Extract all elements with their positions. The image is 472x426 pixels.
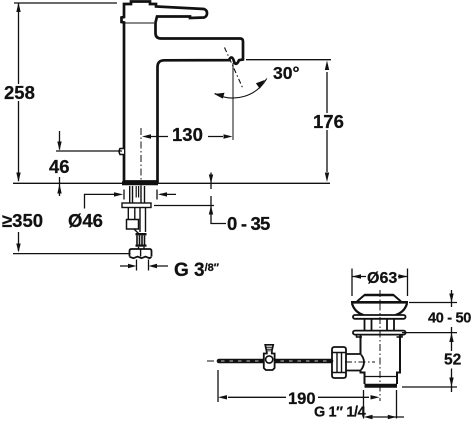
svg-text:40 - 50: 40 - 50 [428,311,471,327]
dim 190 line and arrows [228,396,369,398]
dim 0-35 stubs, arrows, leader [211,173,226,224]
svg-text:176: 176 [313,111,344,132]
handle seam [125,22,154,24]
svg-text:Ø46: Ø46 [68,210,103,231]
rod clamp pivot hole [266,356,273,363]
side clip on body [119,149,124,155]
svg-text:G 3/8″: G 3/8″ [174,260,220,281]
dim >=350 arrow stub [18,232,20,251]
dim Ø46 extension ticks [124,190,157,200]
svg-text:258: 258 [4,82,35,103]
dim 46 extension line at clip [56,150,122,152]
faucet base thick bottom [122,181,158,185]
drain tailpipe bottom [365,384,398,388]
drain funnel sides [352,304,407,316]
svg-text:0 - 35: 0 - 35 [227,213,270,234]
dim 40-50 top arrow stub [451,290,453,307]
flexible hose end [128,208,135,220]
drain ring 1 [353,315,406,319]
drain body top nubs [357,335,403,337]
arc arrowheads [214,80,265,99]
mounting washer [122,203,151,208]
drain centerline horizontal [345,361,375,363]
dim G1 1/4 extension ticks [364,390,397,419]
dim 40-50 extension lines [402,303,457,333]
svg-text:52: 52 [444,352,461,369]
svg-text:G 1″ 1/4: G 1″ 1/4 [314,405,366,421]
svg-text:190: 190 [288,390,316,408]
drain plug cap [357,295,401,302]
drain flange top [351,301,408,304]
counter top line [13,182,330,184]
dim 0-35: counter bottom line [154,205,214,207]
dim Ø63 extension ticks [352,269,408,297]
dim 190 extension tick [217,370,219,402]
dim 52 bottom extension line [402,386,457,388]
drain body [361,335,401,384]
svg-text:46: 46 [49,156,70,177]
dim 258 vertical line [18,3,20,181]
dim 130 line and arrows [151,136,223,138]
dim Ø63 line and arrows [352,276,408,278]
dim 258 top extension line [14,2,117,4]
30 degree arc [215,79,267,98]
svg-text:130: 130 [172,124,203,145]
small ribbed nut on stud [136,233,147,235]
pop-up rod [219,359,331,364]
rod clamp screw [265,345,273,352]
spout outlet vertical reference line [232,63,234,140]
dim 176 extension line from spout outlet [246,59,331,61]
bottom mounting nut [130,249,152,257]
30 degree flow axis dash-dot line [225,48,243,88]
dim 258 arrows [16,3,20,183]
faucet centerline [140,128,142,186]
svg-text:≥350: ≥350 [2,210,43,231]
dim Ø46 leader and arrows [85,194,177,208]
drain ring 2 [353,331,406,335]
supply hoses and stud below base [130,186,145,203]
rod coupling nut [332,347,346,378]
dim 46 stubs and arrows [59,131,61,196]
dim G3/8 ticks [137,260,149,271]
dim 176 line and arrows [326,72,328,172]
svg-text:30°: 30° [273,63,299,83]
drain inlet cylinder [346,354,364,371]
drain threaded barrel [365,319,395,331]
rod clamp body [264,351,275,370]
clearance line below faucet [13,253,131,255]
svg-text:Ø63: Ø63 [367,270,397,287]
faucet body outline [122,2,244,182]
dim G3/8 line and arrows [120,265,168,267]
dim 52 line (shared arrow at top) [451,327,453,392]
dim G1 1/4 line and arrows [369,416,404,418]
drain centerline vertical [379,290,381,401]
threaded stud [140,208,146,233]
